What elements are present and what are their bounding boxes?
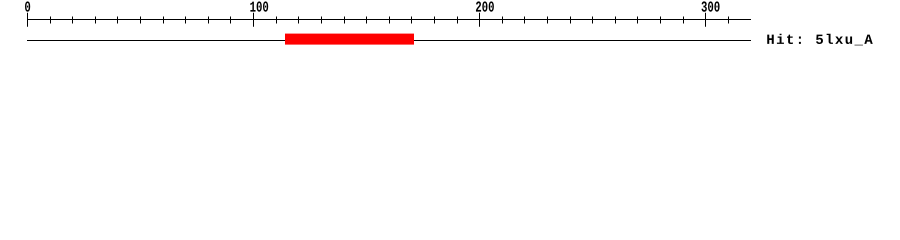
major tick 100	[253, 13, 255, 27]
ruler axis line	[27, 19, 751, 21]
hit name label: Hit: 5lxu_A	[767, 34, 872, 46]
background	[0, 0, 900, 60]
hit alignment red bar	[285, 34, 414, 45]
ruler label 100	[250, 1, 268, 11]
major tick 0	[27, 13, 29, 27]
ruler label 200	[476, 1, 494, 11]
major tick 200	[479, 13, 481, 27]
major tick 300	[705, 13, 707, 27]
ruler label 0	[25, 1, 30, 11]
ruler label 300	[702, 1, 720, 11]
query sequence line	[27, 40, 751, 42]
minor ticks every 10 units	[51, 17, 729, 24]
